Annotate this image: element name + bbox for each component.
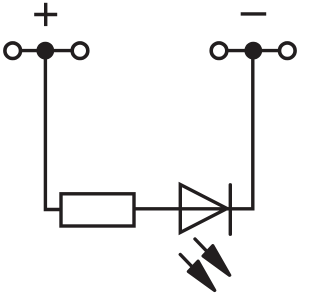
LED emission arrow lower: [180, 255, 214, 291]
plus label: [34, 3, 57, 26]
terminal ring right inner: [211, 43, 227, 59]
junction node negative: [244, 42, 262, 60]
resistor R1: [61, 194, 134, 226]
junction node positive: [36, 42, 54, 60]
minus label: [241, 12, 267, 15]
LED D1 triangle anode: [180, 185, 227, 233]
terminal ring left outer: [5, 43, 21, 59]
wire right terminal horizontal: [219, 49, 287, 52]
wire left vertical to resistor: [45, 51, 61, 210]
LED D1 cathode bar: [229, 185, 232, 234]
wire left terminal horizontal: [13, 49, 80, 52]
LED emission arrow upper: [195, 239, 230, 275]
terminal ring right outer: [280, 43, 296, 59]
terminal ring left inner: [72, 43, 88, 59]
wire resistor to LED to right vertical: [134, 51, 253, 209]
